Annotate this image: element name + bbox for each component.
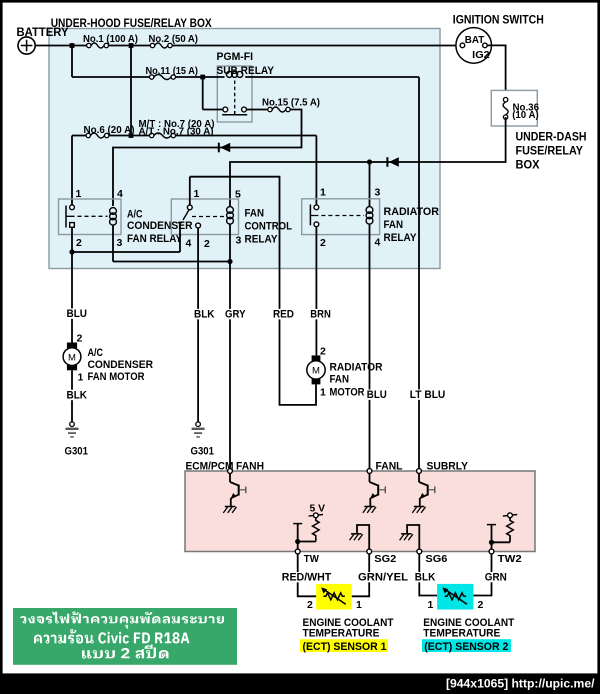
bias node TW2 <box>503 513 517 518</box>
wire GRN/YEL SG2 to sensor1 <box>352 554 409 596</box>
svg-text:BOX: BOX <box>516 160 540 172</box>
pin FANL <box>367 461 403 474</box>
wire RED/WHT TW to sensor1 <box>281 554 333 596</box>
ECM/PCM box <box>185 461 535 552</box>
svg-text:A/T : No.7 (30 A): A/T : No.7 (30 A) <box>139 126 214 138</box>
svg-text:BLU: BLU <box>367 389 387 401</box>
wire battery bus <box>35 45 460 47</box>
PGM-FI sub relay <box>203 51 419 122</box>
TW2 sense tap <box>487 525 510 550</box>
wire No.6/No.7 row <box>72 46 316 206</box>
pin SG6 <box>417 549 448 565</box>
svg-text:2: 2 <box>478 599 484 611</box>
svg-text:RELAY: RELAY <box>384 232 418 244</box>
A/C condenser fan motor <box>63 333 153 384</box>
svg-text:FANH: FANH <box>236 461 264 473</box>
wire RED radiator fan motor low to fan control relay pin1 <box>190 177 316 405</box>
TW sense tap <box>293 524 316 550</box>
ECT sensor 2 caption <box>422 617 515 653</box>
title box (Thai) <box>13 608 237 665</box>
svg-text:FAN: FAN <box>330 373 350 385</box>
wire No.15 to A/C condenser fan relay pin 4 <box>113 110 302 207</box>
svg-text:(ECT) SENSOR 1: (ECT) SENSOR 1 <box>303 641 387 653</box>
svg-text:No.6 (20 A): No.6 (20 A) <box>84 124 135 136</box>
svg-text:2: 2 <box>204 238 210 250</box>
svg-text:1: 1 <box>320 187 326 199</box>
svg-text:LT BLU: LT BLU <box>410 389 446 401</box>
fuse No.1 (100 A) <box>83 33 138 48</box>
svg-text:G301: G301 <box>65 446 89 458</box>
svg-text:RADIATOR: RADIATOR <box>330 361 383 373</box>
svg-text:3: 3 <box>236 235 242 247</box>
wire BRN radiator fan relay pin2 to motor <box>309 227 332 356</box>
svg-text:TW: TW <box>304 553 319 565</box>
svg-text:CONDENSER: CONDENSER <box>127 220 193 232</box>
5 V reference <box>309 503 325 518</box>
ground G301 fan control relay <box>191 422 215 458</box>
wire BLK SG6 to sensor2 <box>414 554 437 596</box>
svg-text:UNDER-HOOD FUSE/RELAY BOX: UNDER-HOOD FUSE/RELAY BOX <box>51 18 212 30</box>
transistor Q2 FANL driver <box>363 473 386 513</box>
svg-text:A/C: A/C <box>127 209 143 221</box>
fuse No.15 (7.5 A) <box>262 97 320 113</box>
svg-text:(10 A): (10 A) <box>512 109 539 121</box>
svg-text:4: 4 <box>375 237 381 249</box>
svg-text:[944x1065] http://upic.me/: [944x1065] http://upic.me/ <box>446 677 595 691</box>
svg-text:4: 4 <box>117 188 123 200</box>
svg-text:IGNITION SWITCH: IGNITION SWITCH <box>453 15 544 27</box>
svg-text:No.15 (7.5 A): No.15 (7.5 A) <box>262 97 320 109</box>
wire No.11 feed <box>72 46 201 78</box>
svg-text:BLK: BLK <box>415 572 436 584</box>
fuse No.2 (50 A) <box>149 33 199 48</box>
resistor R1 (TW pull-up) <box>312 518 319 542</box>
wire coil feed (IG2) with diode <box>230 117 506 206</box>
svg-text:G301: G301 <box>191 446 215 458</box>
ECT sensor 1 caption <box>300 617 394 653</box>
svg-text:1: 1 <box>428 599 434 611</box>
junction bus/No.6 feed <box>129 43 134 48</box>
svg-text:BLU: BLU <box>67 308 88 320</box>
svg-text:A/C: A/C <box>88 347 104 359</box>
svg-text:FAN: FAN <box>245 208 265 220</box>
ground G301 condenser motor <box>65 422 89 458</box>
pin SG2 <box>367 549 397 565</box>
fuse No.36 (10 A) <box>503 98 508 120</box>
pin TW2 <box>489 549 522 565</box>
wire IG2 to under-dash fuse No.36 <box>487 45 505 97</box>
svg-text:BRN: BRN <box>310 309 331 321</box>
svg-text:TW2: TW2 <box>498 553 522 565</box>
svg-text:1: 1 <box>76 188 82 200</box>
ECT sensor 1 (thermistor) <box>307 584 362 611</box>
svg-text:RED/WHT: RED/WHT <box>282 572 332 584</box>
svg-text:SG6: SG6 <box>425 553 447 565</box>
svg-text:M: M <box>312 366 320 377</box>
svg-text:2: 2 <box>77 333 83 345</box>
svg-text:3: 3 <box>117 237 123 249</box>
resistor R2 (TW2 pull-up) <box>507 518 514 543</box>
wire A/C relay pin2 junction <box>69 227 180 254</box>
svg-text:No.11 (15 A): No.11 (15 A) <box>146 65 199 77</box>
watermark footer <box>0 673 600 694</box>
wire BLK motor to ground <box>66 370 89 422</box>
svg-text:(ECT) SENSOR 2: (ECT) SENSOR 2 <box>424 641 508 653</box>
svg-text:CONDENSER: CONDENSER <box>88 359 154 371</box>
svg-text:No.2 (50 A): No.2 (50 A) <box>149 33 199 45</box>
under-dash fuse/relay box <box>491 90 586 171</box>
junction No.6 row <box>129 133 134 138</box>
transistor Q3 SUBRLY driver <box>412 473 435 513</box>
junction bus/No.11 feed <box>70 43 75 48</box>
svg-text:SG2: SG2 <box>374 553 396 565</box>
svg-text:IG2: IG2 <box>472 49 490 61</box>
svg-text:PGM-FI: PGM-FI <box>217 51 254 63</box>
pin FANH <box>228 461 264 474</box>
wire BLU to condenser fan motor <box>66 252 89 343</box>
svg-text:BAT: BAT <box>465 34 485 46</box>
wire GRY to ECM FANH <box>224 262 247 469</box>
svg-text:1: 1 <box>320 387 326 399</box>
svg-text:FAN MOTOR: FAN MOTOR <box>88 371 145 383</box>
svg-text:UNDER-DASH: UNDER-DASH <box>516 132 587 144</box>
wire BLK fan control relay pin2 to G301 <box>193 228 216 422</box>
battery <box>17 27 69 54</box>
svg-text:TEMPERATURE: TEMPERATURE <box>423 628 500 640</box>
wire GRN TW2 to sensor2 <box>473 554 508 596</box>
svg-text:1: 1 <box>78 372 84 384</box>
svg-text:TEMPERATURE: TEMPERATURE <box>303 628 380 640</box>
fuse No.7 M/T (20 A) / A/T (30 A) <box>139 118 215 138</box>
svg-text:M: M <box>68 352 76 363</box>
svg-text:GRY: GRY <box>225 309 246 321</box>
diode D2 <box>387 157 398 167</box>
diode D1 <box>219 143 230 153</box>
radiator fan motor <box>307 346 383 399</box>
svg-text:GRN/YEL: GRN/YEL <box>358 572 408 584</box>
junction coil-low GRY <box>113 259 233 264</box>
svg-text:BLK: BLK <box>194 309 215 321</box>
under-hood fuse/relay box <box>49 18 440 269</box>
svg-text:2: 2 <box>320 237 326 249</box>
transistor Q1 FANH driver <box>223 473 246 513</box>
svg-text:FUSE/RELAY: FUSE/RELAY <box>516 146 584 158</box>
svg-text:FANL: FANL <box>376 461 403 473</box>
svg-text:BATTERY: BATTERY <box>17 27 69 39</box>
svg-text:2: 2 <box>76 237 82 249</box>
ECT sensor 2 (thermistor) <box>428 584 484 611</box>
junction No.11/PGM-FI <box>200 75 205 80</box>
svg-text:GRN: GRN <box>485 572 507 584</box>
svg-text:1: 1 <box>356 599 362 611</box>
wire BLU radiator fan relay pin4 to ECM FANL <box>366 389 388 401</box>
junction coil feed / radiator fan relay coil <box>367 159 372 206</box>
svg-text:3: 3 <box>375 187 381 199</box>
wire LT BLU PGM-FI coil to ECM SUBRLY <box>409 77 447 469</box>
svg-text:RELAY: RELAY <box>245 234 279 246</box>
svg-text:2: 2 <box>320 346 326 358</box>
SG6 internal ground <box>400 525 420 549</box>
svg-text:FAN: FAN <box>384 219 404 231</box>
fuse No.6 (20 A) <box>84 124 135 138</box>
fuse No.11 (15 A) <box>146 65 199 80</box>
svg-text:5: 5 <box>235 189 241 201</box>
svg-text:BLK: BLK <box>67 389 88 401</box>
svg-text:MOTOR: MOTOR <box>330 387 365 399</box>
svg-text:RED: RED <box>273 309 294 321</box>
relay radiator fan relay <box>302 187 439 469</box>
SG2 internal ground <box>350 525 370 549</box>
svg-text:4: 4 <box>186 238 192 250</box>
svg-text:SUBRLY: SUBRLY <box>427 461 469 473</box>
pin SUBRLY <box>417 461 469 474</box>
pin TW <box>295 549 319 565</box>
svg-text:CONTROL: CONTROL <box>245 221 293 233</box>
svg-text:1: 1 <box>194 188 200 200</box>
relay fan control relay <box>171 177 292 262</box>
relay A/C condenser fan relay <box>59 188 193 262</box>
svg-text:ECM/PCM: ECM/PCM <box>186 461 234 473</box>
svg-text:2: 2 <box>307 599 313 611</box>
svg-text:RADIATOR: RADIATOR <box>384 206 440 218</box>
svg-text:SUB RELAY: SUB RELAY <box>217 65 275 77</box>
ignition switch <box>453 15 544 64</box>
